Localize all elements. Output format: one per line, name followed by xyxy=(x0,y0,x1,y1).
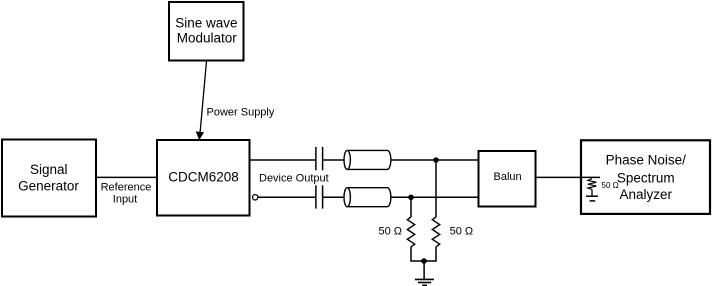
wire: bottom tie bar xyxy=(410,260,436,262)
svg-text:Signal: Signal xyxy=(30,162,68,177)
inverting output bubble on CDCM6208 xyxy=(253,195,258,200)
ground (analyzer termination) xyxy=(586,196,598,201)
svg-text:Generator: Generator xyxy=(18,179,79,194)
label: Reference Input xyxy=(101,182,152,206)
node: bottom junction xyxy=(408,195,414,201)
svg-text:50 Ω: 50 Ω xyxy=(378,226,402,238)
wire: top cable to balun xyxy=(391,159,479,161)
wire: vertical from top junction to resistor R2 xyxy=(435,160,437,217)
box: Sine wave Modulator xyxy=(169,2,244,61)
svg-text:Device Output: Device Output xyxy=(259,172,329,184)
box: Phase Noise / Spectrum Analyzer xyxy=(581,140,710,214)
svg-text:Spectrum: Spectrum xyxy=(617,170,675,185)
coax cable (top) xyxy=(344,150,391,169)
resistor R3 (50 ohm analyzer termination) xyxy=(588,179,597,190)
wire: bottom output from CDCM6208 to capacitor xyxy=(258,196,316,198)
wire: termination resistor lead to ground xyxy=(591,189,593,196)
wire: bottom cable to balun xyxy=(391,196,479,198)
wire: R1 bottom lead xyxy=(410,247,412,261)
svg-text:Analyzer: Analyzer xyxy=(620,187,673,202)
svg-text:Modulator: Modulator xyxy=(177,30,238,45)
capacitor C2 (bottom AC coupling) xyxy=(316,185,323,208)
svg-text:Power Supply: Power Supply xyxy=(207,107,275,119)
svg-text:Reference: Reference xyxy=(101,182,152,194)
wire: capacitor C1 to top cable xyxy=(323,159,345,161)
box: Balun xyxy=(479,151,536,207)
wire: reference input xyxy=(96,176,157,178)
resistor R2 (50 ohm, right) xyxy=(432,217,439,247)
svg-text:50 Ω: 50 Ω xyxy=(602,181,619,190)
ground xyxy=(415,279,434,285)
resistor R1 (50 ohm, left) xyxy=(407,217,414,247)
wire: power supply arrow from modulator to CDCM6208 xyxy=(196,61,207,140)
wire: capacitor C2 to bottom cable xyxy=(323,196,345,198)
wire: top output from CDCM6208 to capacitor xyxy=(250,159,316,161)
svg-text:Input: Input xyxy=(113,194,137,206)
wire: R2 bottom lead xyxy=(435,247,437,261)
wire: junction to ground xyxy=(423,261,425,279)
box: Signal Generator xyxy=(2,140,96,217)
node: ground junction xyxy=(421,258,427,264)
op-amp U1: CDCM6208 device box xyxy=(157,140,250,216)
svg-text:CDCM6208: CDCM6208 xyxy=(168,170,239,185)
wire: vertical from bottom junction to resistor R1 xyxy=(410,197,412,217)
svg-text:Phase Noise/: Phase Noise/ xyxy=(606,153,687,168)
wire: balun to analyzer termination xyxy=(536,176,601,178)
svg-text:Balun: Balun xyxy=(494,171,522,183)
node: top junction xyxy=(433,157,439,163)
capacitor C1 (top AC coupling) xyxy=(316,147,323,170)
svg-text:50 Ω: 50 Ω xyxy=(450,226,474,238)
coax cable (bottom) xyxy=(344,188,391,207)
svg-text:Sine wave: Sine wave xyxy=(175,16,237,31)
